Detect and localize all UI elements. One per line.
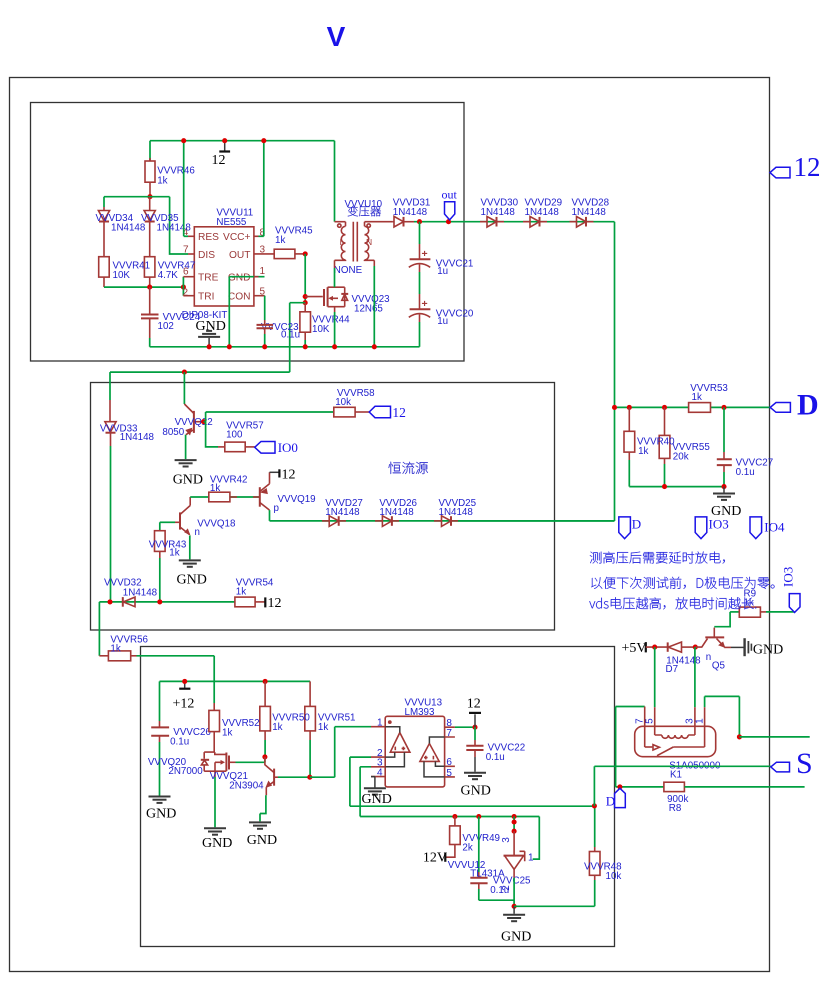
svg-text:0.1u: 0.1u bbox=[486, 752, 505, 763]
label C25 bbox=[490, 875, 531, 896]
label D29 bbox=[525, 198, 563, 219]
svg-text:D: D bbox=[632, 517, 641, 532]
box3 comparator sub-frame bbox=[141, 647, 615, 947]
resistor R48 bbox=[589, 806, 600, 880]
resistor R52 bbox=[209, 703, 220, 752]
wire D25 chain to vertical bbox=[458, 520, 615, 522]
node D7 pin5 bbox=[652, 645, 657, 650]
svg-text:NE555: NE555 bbox=[216, 217, 247, 228]
svg-text:TL431A: TL431A bbox=[470, 869, 505, 880]
label D31 bbox=[393, 198, 431, 219]
diode D35 bbox=[144, 197, 155, 257]
ground GND TL431 bbox=[501, 906, 531, 944]
wire relay pin1 net bbox=[705, 696, 740, 747]
label Q22 bbox=[162, 417, 212, 438]
svg-text:12V: 12V bbox=[423, 851, 447, 866]
svg-text:1N4148: 1N4148 bbox=[120, 432, 155, 443]
label Q20 bbox=[148, 757, 203, 777]
node R46 bottom junction bbox=[147, 194, 152, 199]
pin leads LM393 left bbox=[371, 727, 385, 777]
svg-text:20k: 20k bbox=[673, 452, 689, 463]
black wire pin6 to inB- bbox=[435, 761, 444, 766]
wire OUT lead bbox=[254, 253, 274, 255]
svg-text:1: 1 bbox=[695, 718, 706, 724]
svg-text:VVVQ19: VVVQ19 bbox=[278, 494, 316, 505]
svg-text:1N4148: 1N4148 bbox=[157, 222, 192, 233]
capacitor C25 bbox=[470, 817, 514, 901]
ground GND C22 bbox=[461, 773, 491, 799]
label K1 bbox=[669, 760, 721, 780]
wire out chain to D net vertical bbox=[614, 222, 616, 521]
wire R51 to pin1 bbox=[310, 727, 371, 778]
capacitor C24 bbox=[141, 287, 159, 347]
node X gate bbox=[303, 294, 308, 299]
label R45 bbox=[275, 225, 313, 246]
resistor R44 bbox=[300, 303, 311, 347]
svg-text:1k: 1k bbox=[157, 175, 167, 186]
transistor Q5 bbox=[695, 628, 731, 648]
svg-text:1k: 1k bbox=[638, 446, 648, 457]
label R51 bbox=[318, 713, 356, 733]
label Q5 bbox=[706, 652, 726, 672]
svg-text:4.7K: 4.7K bbox=[158, 270, 179, 281]
node D31 out bbox=[417, 219, 422, 224]
node relay pin1 out bbox=[737, 734, 742, 739]
resistor R54 bbox=[235, 597, 265, 607]
svg-text:1: 1 bbox=[260, 266, 266, 277]
label R48 bbox=[584, 861, 622, 882]
node Q22 collector tap bbox=[182, 370, 187, 375]
svg-text:+5V: +5V bbox=[622, 641, 647, 656]
port out bbox=[442, 187, 458, 220]
svg-text:n: n bbox=[195, 527, 200, 538]
wire S net bbox=[594, 765, 770, 767]
label transformer chinese bbox=[348, 206, 381, 216]
relay contact bbox=[645, 745, 705, 756]
wire R56 net bbox=[98, 602, 100, 656]
node +12 stem bbox=[182, 679, 187, 684]
svg-text:1: 1 bbox=[528, 853, 534, 864]
wire vref to TL431 ref bbox=[533, 817, 540, 860]
black wire outB to pin7 bbox=[429, 737, 444, 744]
wire TRE lead bbox=[183, 276, 194, 278]
wire primary bottom to Q23 drain bbox=[334, 260, 336, 287]
svg-text:3: 3 bbox=[501, 837, 512, 843]
wire Q23 source bbox=[334, 307, 336, 347]
svg-text:2N7000: 2N7000 bbox=[168, 766, 203, 777]
node Q5 base pin3 bbox=[693, 645, 698, 650]
svg-text:CON: CON bbox=[228, 292, 251, 303]
svg-text:VCC+: VCC+ bbox=[223, 232, 251, 243]
svg-text:1: 1 bbox=[377, 718, 383, 729]
svg-text:1k: 1k bbox=[222, 727, 232, 738]
svg-text:IO3: IO3 bbox=[709, 517, 729, 532]
label Q21 bbox=[210, 771, 264, 791]
wire D net horizontal bbox=[615, 406, 771, 408]
diode D28 bbox=[570, 217, 594, 228]
wire R42 row bbox=[190, 496, 209, 498]
svg-text:IO4: IO4 bbox=[764, 520, 785, 535]
wire anode to R48 bbox=[514, 880, 595, 906]
svg-text:IO0: IO0 bbox=[278, 440, 298, 455]
wire RES pin4 column bbox=[183, 141, 185, 237]
svg-text:1N4148: 1N4148 bbox=[325, 507, 360, 518]
wire D34 column top bbox=[103, 197, 105, 207]
resistor R42 bbox=[209, 492, 260, 502]
port IO0 bbox=[255, 440, 298, 455]
label U10 bbox=[345, 199, 383, 210]
svg-text:N: N bbox=[366, 237, 372, 247]
svg-text:1N4148: 1N4148 bbox=[572, 207, 607, 218]
label U12 bbox=[448, 860, 505, 880]
svg-text:GND: GND bbox=[501, 930, 531, 945]
capacitor C27 bbox=[717, 407, 732, 486]
wire R46 column bbox=[149, 141, 151, 161]
svg-text:RES: RES bbox=[198, 232, 219, 243]
label R43 bbox=[149, 540, 187, 559]
resistor R43 bbox=[155, 522, 166, 602]
node R50 top bbox=[263, 679, 268, 684]
node R43 bottom bbox=[157, 599, 162, 604]
svg-text:1N4148: 1N4148 bbox=[123, 587, 158, 598]
node R51 bottom bbox=[307, 775, 312, 780]
diode D29 bbox=[523, 217, 547, 228]
wire S net riser bbox=[593, 766, 595, 806]
svg-text:0.1u: 0.1u bbox=[736, 467, 755, 478]
wire relay pin7 net bbox=[616, 707, 645, 787]
label D26 bbox=[379, 498, 417, 518]
wire pin2 net to S bottom rail bbox=[350, 757, 595, 806]
label R47 bbox=[158, 260, 196, 281]
node pin4 rail bbox=[181, 138, 186, 143]
resistor R58 bbox=[334, 407, 369, 417]
wire pin8 to 12 bbox=[455, 725, 478, 730]
port IO3 (R9) bbox=[781, 567, 801, 613]
capacitor C22 bbox=[466, 727, 483, 772]
wire TRE TRI rail bbox=[104, 286, 183, 288]
wire TRE TRI riser bbox=[182, 277, 184, 296]
port D (right edge) bbox=[770, 389, 818, 422]
node out port bbox=[446, 219, 451, 224]
IC U13 LM393 body bbox=[385, 716, 444, 787]
label Q23 bbox=[352, 294, 391, 315]
resistor R49 bbox=[446, 817, 460, 858]
label C23 bbox=[261, 322, 300, 341]
svg-text:102: 102 bbox=[158, 321, 174, 332]
resistor R8 bbox=[664, 782, 805, 791]
power port +5V bbox=[622, 641, 668, 656]
node TRE riser bbox=[181, 285, 186, 290]
node C23 rail bbox=[262, 344, 267, 349]
svg-text:Q5: Q5 bbox=[712, 661, 726, 672]
node R53 C27 bbox=[721, 405, 726, 410]
power symbol +12 bbox=[173, 681, 195, 711]
svg-text:1N4148: 1N4148 bbox=[439, 507, 474, 518]
label Q18 bbox=[195, 518, 236, 537]
svg-text:GND: GND bbox=[753, 643, 783, 658]
resistor R45 bbox=[274, 249, 305, 258]
svg-text:5: 5 bbox=[645, 718, 656, 724]
svg-text:VVVR43: VVVR43 bbox=[149, 540, 187, 551]
annotation text line2 bbox=[591, 577, 774, 589]
label R58 bbox=[335, 388, 375, 408]
power port 12 (R54) bbox=[265, 596, 281, 611]
label R41 bbox=[113, 260, 151, 281]
node R55 bottom bbox=[662, 484, 667, 489]
svg-text:K1: K1 bbox=[670, 770, 682, 781]
svg-text:p: p bbox=[274, 503, 280, 514]
svg-text:VVVQ18: VVVQ18 bbox=[197, 518, 236, 529]
diode D33 bbox=[105, 422, 116, 602]
svg-text:TRE: TRE bbox=[198, 273, 219, 284]
box1 555 oscillator sub-frame bbox=[31, 103, 465, 362]
label R49 bbox=[462, 833, 500, 853]
svg-text:4: 4 bbox=[377, 768, 383, 779]
svg-text:GND: GND bbox=[146, 807, 176, 822]
svg-text:1k: 1k bbox=[110, 644, 120, 655]
svg-text:1k: 1k bbox=[236, 586, 246, 597]
capacitor C21 polarized bbox=[409, 222, 431, 294]
power port 12 (Q19) bbox=[270, 467, 296, 482]
node vref C25 bbox=[476, 814, 481, 819]
svg-text:2N3904: 2N3904 bbox=[229, 780, 264, 791]
power symbol 12 (C22) bbox=[467, 697, 481, 728]
wire Q20 gate net bbox=[236, 757, 265, 762]
wire RES lead bbox=[184, 235, 195, 237]
ground GND Q21 bbox=[247, 822, 277, 847]
wire TRI lead bbox=[183, 295, 194, 297]
svg-text:DIS: DIS bbox=[198, 250, 215, 261]
svg-text:1u: 1u bbox=[437, 266, 448, 277]
svg-text:1N4148: 1N4148 bbox=[393, 207, 428, 218]
node gnd stem rail bbox=[207, 344, 212, 349]
resistor R9 bbox=[730, 607, 794, 617]
node D net vertical bbox=[612, 405, 617, 410]
svg-text:6: 6 bbox=[446, 757, 452, 768]
diode D25 bbox=[434, 516, 458, 527]
diode D32 bbox=[123, 597, 135, 607]
ground GND Q20 bbox=[202, 828, 232, 851]
power port 12V bbox=[423, 851, 447, 866]
node VCC rail bbox=[261, 138, 266, 143]
box2 constant-current sub-frame bbox=[91, 383, 555, 631]
node X lower bbox=[303, 300, 308, 305]
svg-text:1k: 1k bbox=[169, 547, 179, 558]
black wire pin3 to inA+ bbox=[385, 752, 404, 767]
label D7 bbox=[666, 656, 702, 675]
power symbol 12 (box1 top) bbox=[212, 141, 231, 168]
label R57 bbox=[226, 421, 264, 441]
label C27 bbox=[736, 457, 774, 477]
transistor Q19 bbox=[260, 472, 615, 521]
label Q19 bbox=[274, 494, 316, 514]
wire R56 feed down to R52 bbox=[213, 656, 215, 703]
node R50 bottom bbox=[262, 754, 267, 759]
label R56 bbox=[110, 634, 148, 654]
label D33 bbox=[100, 423, 155, 443]
svg-text:GND: GND bbox=[247, 833, 277, 848]
node OUT R45 bbox=[303, 251, 308, 256]
label D35 bbox=[141, 213, 191, 234]
svg-text:LM393: LM393 bbox=[405, 707, 436, 718]
node vref TL431 bbox=[512, 814, 517, 819]
svg-text:+12: +12 bbox=[173, 697, 195, 712]
label C21 bbox=[436, 259, 474, 278]
port IO3 (floating) bbox=[695, 517, 729, 539]
ground GND Q18 bbox=[177, 560, 207, 587]
svg-text:10k: 10k bbox=[335, 397, 351, 408]
transistor Q21 2N3904 bbox=[260, 757, 310, 822]
label D27 bbox=[325, 498, 363, 518]
label R53 bbox=[690, 383, 728, 403]
annotation text line3 bbox=[589, 597, 756, 609]
pin1 marker dot bbox=[388, 720, 392, 724]
port S (right edge) bbox=[771, 747, 813, 780]
resistor R50 bbox=[260, 681, 271, 757]
svg-text:n: n bbox=[706, 652, 711, 663]
transistor Q23 12N65 bbox=[305, 287, 348, 307]
label D30 bbox=[481, 198, 519, 219]
node C27 bottom bbox=[721, 484, 726, 489]
wire D block bottom bbox=[629, 486, 724, 488]
wire relay pin3 net bbox=[694, 647, 696, 735]
diode D27 bbox=[322, 516, 346, 527]
node vref R49 bbox=[452, 814, 457, 819]
wire +12 rail box3 bbox=[160, 680, 311, 682]
svg-text:D: D bbox=[797, 389, 819, 422]
op-amp A triangle bbox=[390, 733, 410, 753]
label R50 bbox=[272, 713, 310, 733]
wire node X column bbox=[304, 254, 306, 303]
ground GND Q22 bbox=[173, 460, 203, 487]
svg-text:+: + bbox=[422, 298, 428, 310]
transistor Q18 bbox=[160, 497, 191, 559]
node secondary rail bbox=[372, 344, 377, 349]
svg-text:100: 100 bbox=[226, 430, 243, 441]
wire transformer primary top column bbox=[334, 141, 336, 222]
ground GND C26 bbox=[146, 797, 176, 822]
wire interbox node X net bbox=[110, 371, 290, 373]
label R42 bbox=[210, 474, 248, 494]
label R40 bbox=[637, 436, 675, 456]
svg-text:IO3: IO3 bbox=[781, 567, 796, 587]
resistor R41 bbox=[99, 257, 110, 287]
label U13 bbox=[405, 698, 443, 718]
svg-text:1N4148: 1N4148 bbox=[111, 222, 146, 233]
diode D34 bbox=[98, 207, 109, 257]
label R46 bbox=[157, 166, 195, 187]
port D (floating) bbox=[619, 517, 641, 539]
label C24 bbox=[158, 312, 201, 332]
port D (R8) bbox=[606, 788, 626, 808]
svg-text:12: 12 bbox=[212, 153, 226, 168]
svg-text:2: 2 bbox=[501, 885, 512, 891]
wire relay pin5 net bbox=[654, 647, 656, 735]
transistor Q22 8050 bbox=[184, 372, 203, 459]
black wire pin2 to inA- bbox=[385, 752, 395, 757]
svg-text:12: 12 bbox=[392, 405, 406, 420]
wire CON net bbox=[254, 296, 265, 325]
ground GND Q5 (bar style) bbox=[731, 638, 783, 657]
node R55 top bbox=[662, 405, 667, 410]
resistor R57 bbox=[218, 442, 255, 452]
port 12 (right edge) bbox=[770, 152, 821, 182]
svg-text:1u: 1u bbox=[437, 316, 448, 327]
wire DIS riser bbox=[170, 197, 188, 254]
svg-text:2: 2 bbox=[183, 288, 189, 299]
svg-text:I: I bbox=[340, 237, 342, 247]
wire secondary bottom leg bbox=[373, 260, 375, 347]
diode D31 bbox=[392, 216, 414, 227]
wire pin3 net to vref bbox=[360, 767, 539, 817]
svg-text:GND: GND bbox=[202, 836, 232, 851]
svg-text:V: V bbox=[327, 21, 346, 52]
svg-text:1N4148: 1N4148 bbox=[525, 207, 560, 218]
ground GND C27 bbox=[711, 487, 741, 519]
node Q22 base bbox=[201, 419, 206, 424]
label R52 bbox=[222, 718, 260, 738]
diode D26 bbox=[375, 516, 399, 527]
resistor R47 bbox=[144, 257, 155, 287]
pin leads LM393 right bbox=[445, 727, 455, 777]
wire D33 column bbox=[109, 372, 111, 422]
svg-text:NONE: NONE bbox=[334, 265, 363, 276]
svg-text:1k: 1k bbox=[272, 722, 282, 733]
capacitor C23 bbox=[257, 325, 274, 347]
svg-text:12N65: 12N65 bbox=[354, 304, 383, 315]
svg-text:1k: 1k bbox=[210, 483, 220, 494]
resistor R40 bbox=[624, 407, 635, 486]
wire R9 to Q5 collector bbox=[714, 612, 730, 627]
svg-text:R8: R8 bbox=[669, 803, 682, 814]
label R54 bbox=[236, 577, 274, 597]
wire top +12 rail box1 bbox=[150, 140, 335, 142]
node Q23 source rail bbox=[332, 344, 337, 349]
black wire pin5 to inB+ bbox=[424, 761, 445, 777]
resistor R53 bbox=[689, 403, 711, 413]
wire pin4 to GND bbox=[362, 777, 392, 807]
svg-text:0.1u: 0.1u bbox=[281, 330, 300, 341]
svg-text:TRI: TRI bbox=[198, 292, 214, 303]
svg-text:GND: GND bbox=[173, 472, 203, 487]
label D34 bbox=[96, 213, 146, 234]
label R8 bbox=[667, 794, 688, 814]
relay K1 body bbox=[635, 726, 716, 756]
node S net R48 bbox=[592, 803, 597, 808]
svg-text:12: 12 bbox=[467, 697, 481, 712]
svg-text:12: 12 bbox=[794, 152, 821, 182]
svg-text:GND: GND bbox=[228, 273, 251, 284]
resistor R56 bbox=[99, 651, 214, 661]
label 恒流源 placeholder bbox=[389, 462, 428, 474]
wire to right edge bbox=[739, 736, 809, 738]
svg-text:GND: GND bbox=[177, 573, 207, 588]
wire base to R58 net bbox=[204, 412, 334, 422]
label R9 bbox=[744, 589, 757, 609]
svg-text:5: 5 bbox=[446, 768, 452, 779]
label C22 bbox=[486, 742, 525, 763]
svg-text:7: 7 bbox=[446, 728, 452, 739]
node 12 rail bbox=[222, 138, 227, 143]
resistor R55 bbox=[659, 407, 670, 486]
svg-text:12: 12 bbox=[268, 596, 282, 611]
label R44 bbox=[312, 314, 350, 335]
wire R8 net bbox=[616, 786, 664, 788]
svg-text:10k: 10k bbox=[606, 871, 622, 882]
node TL431 anode bbox=[512, 904, 517, 909]
svg-text:10K: 10K bbox=[113, 270, 131, 281]
svg-text:8050: 8050 bbox=[162, 427, 184, 438]
